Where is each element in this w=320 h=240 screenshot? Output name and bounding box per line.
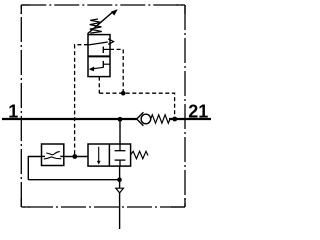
svg-text:1: 1: [8, 102, 18, 122]
svg-text:21: 21: [188, 102, 208, 122]
